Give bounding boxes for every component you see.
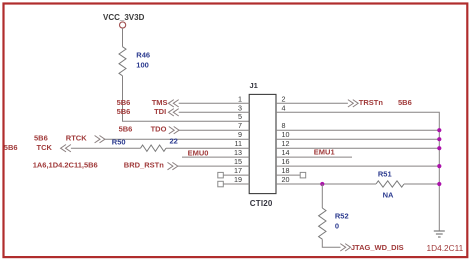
svg-text:BRD_RSTn: BRD_RSTn	[124, 161, 164, 170]
wire TDI to pin3	[179, 111, 250, 113]
svg-text:15: 15	[234, 157, 242, 166]
svg-text:EMU0: EMU0	[188, 148, 209, 157]
svg-text:5B6: 5B6	[117, 98, 131, 107]
svg-text:14: 14	[282, 148, 290, 157]
wire EMU1 pin14	[276, 156, 352, 158]
power symbol VCC_3V3D	[120, 22, 126, 28]
no-connect square pin19	[218, 181, 224, 187]
svg-text:CTI20: CTI20	[250, 199, 273, 208]
svg-text:1D4.2C11: 1D4.2C11	[427, 243, 464, 253]
svg-text:5B6: 5B6	[398, 98, 412, 107]
wire pin18 NC	[276, 174, 300, 176]
svg-text:RTCK: RTCK	[66, 134, 87, 143]
svg-text:5B6: 5B6	[4, 143, 18, 152]
svg-text:16: 16	[282, 157, 290, 166]
svg-text:5B6: 5B6	[34, 134, 48, 143]
resistor R46	[119, 47, 126, 76]
wire pin16 to bus	[276, 165, 439, 167]
wire TCK to R50	[71, 147, 141, 149]
wire R50 to pin11	[166, 147, 249, 149]
svg-text:20: 20	[282, 175, 290, 184]
svg-text:R52: R52	[335, 212, 349, 221]
svg-text:1A6,1D4.2C11,5B6: 1A6,1D4.2C11,5B6	[33, 161, 98, 170]
wire pin12 to bus	[276, 147, 439, 149]
svg-text:TDI: TDI	[154, 107, 166, 116]
svg-text:J1: J1	[250, 81, 258, 90]
svg-text:100: 100	[136, 60, 149, 69]
svg-text:13: 13	[234, 148, 242, 157]
wire pin10 to bus	[276, 138, 439, 140]
no-connect square pin17	[218, 172, 224, 178]
svg-text:TRSTn: TRSTn	[359, 98, 384, 107]
off-page chevron JTAG_WD_DIS	[340, 244, 350, 251]
junction pin12-bus	[437, 146, 441, 150]
off-page chevron TDO	[169, 127, 179, 134]
svg-text:TCK: TCK	[37, 143, 53, 152]
svg-text:10: 10	[282, 130, 290, 139]
wire R46 to pin5	[123, 76, 250, 121]
wire pin8 to bus	[276, 129, 439, 131]
wire pin2 to TRSTn	[276, 102, 348, 104]
pin numbers right	[282, 94, 290, 184]
junction pin16-bus	[437, 164, 441, 168]
junction pin8-bus	[437, 128, 441, 132]
wire R52 to JTAG_WD_DIS	[322, 239, 340, 247]
svg-text:3: 3	[238, 103, 242, 112]
connector J1	[249, 94, 276, 193]
wire pin4 to ground bus	[276, 112, 439, 231]
svg-text:22: 22	[170, 136, 178, 145]
svg-text:VCC_3V3D: VCC_3V3D	[103, 13, 145, 22]
wire EMU0 to pin13	[182, 156, 249, 158]
wire VCC to R46	[122, 28, 124, 47]
junction pin20-R52	[320, 182, 324, 186]
svg-text:5B6: 5B6	[117, 107, 131, 116]
no-connect square pin18	[300, 172, 306, 178]
svg-text:2: 2	[282, 94, 286, 103]
off-page chevron TMS	[168, 100, 178, 107]
svg-text:19: 19	[234, 175, 242, 184]
wire TMS to pin1	[179, 102, 250, 104]
off-page chevron TRSTn	[348, 100, 358, 107]
junction pin10-bus	[437, 137, 441, 141]
svg-text:EMU1: EMU1	[314, 148, 335, 157]
svg-text:18: 18	[282, 166, 290, 175]
svg-text:9: 9	[238, 130, 242, 139]
svg-text:JTAG_WD_DIS: JTAG_WD_DIS	[351, 243, 404, 252]
resistor R51	[376, 181, 404, 187]
svg-text:5B6: 5B6	[119, 125, 133, 134]
off-page chevron TDI	[168, 109, 178, 116]
svg-text:11: 11	[235, 139, 242, 148]
svg-text:0: 0	[335, 221, 339, 230]
svg-text:TMS: TMS	[152, 98, 168, 107]
svg-text:12: 12	[282, 139, 290, 148]
ground	[434, 231, 445, 237]
wire TDO to pin7	[179, 129, 249, 131]
svg-text:1: 1	[238, 94, 242, 103]
svg-text:5: 5	[238, 112, 242, 121]
off-page chevron TCK	[61, 145, 71, 152]
svg-text:R46: R46	[136, 50, 150, 59]
wire RTCK to pin9	[105, 138, 249, 140]
off-page chevron RTCK	[95, 136, 105, 143]
wire R51 to bus	[404, 183, 439, 185]
svg-text:4: 4	[282, 103, 286, 112]
wire pin20 to R51	[276, 183, 376, 185]
wire pin17 NC	[223, 174, 249, 176]
svg-text:TDO: TDO	[151, 125, 167, 134]
pin numbers left	[234, 94, 242, 184]
wire pin19 NC	[223, 183, 249, 185]
svg-text:8: 8	[282, 121, 286, 130]
svg-text:R50: R50	[112, 138, 126, 147]
junction R51-bus	[437, 182, 441, 186]
svg-text:R51: R51	[378, 170, 392, 179]
svg-text:7: 7	[238, 121, 242, 130]
resistor R52	[319, 208, 326, 239]
wire BRD_RSTn to pin15	[178, 165, 249, 167]
svg-text:NA: NA	[383, 191, 394, 200]
off-page chevron BRD_RSTn	[168, 162, 178, 169]
wire pin20 to R52	[321, 184, 323, 208]
svg-text:17: 17	[234, 166, 242, 175]
resistor R50	[141, 145, 167, 151]
